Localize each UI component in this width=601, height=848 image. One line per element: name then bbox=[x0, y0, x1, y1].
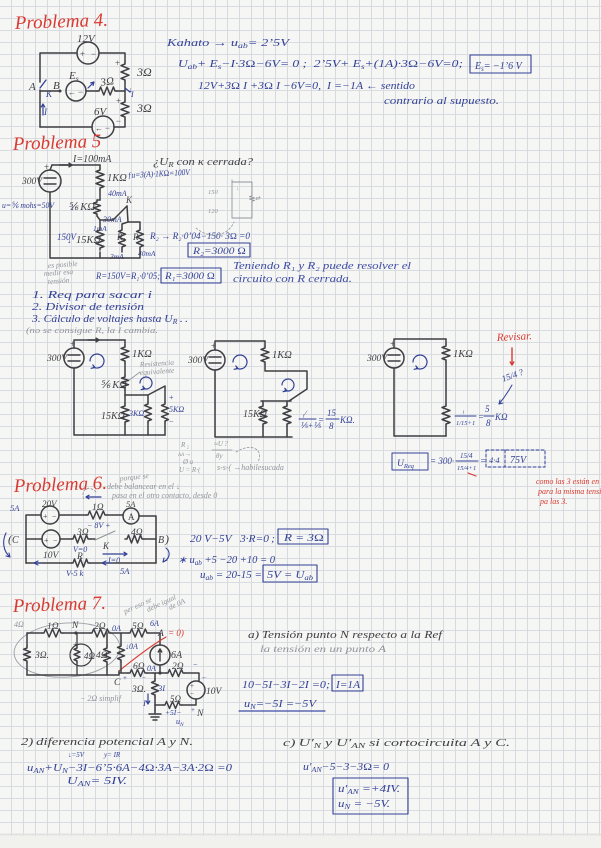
wire middle to right bbox=[117, 90, 125, 92]
wire left P5 bbox=[50, 165, 52, 170]
P6 blue arrow B bbox=[163, 548, 169, 562]
M2 bottom wire bbox=[215, 370, 292, 437]
M2 step wires bbox=[265, 364, 307, 401]
P7 node mid bbox=[158, 671, 161, 674]
M3 top wire bbox=[394, 339, 446, 348]
P7 resistor 3ohm left bbox=[24, 646, 31, 663]
M3 bottom wire bbox=[394, 368, 446, 436]
P6 blue I=0 arrow bbox=[103, 552, 127, 556]
M2 top wire bbox=[215, 341, 265, 350]
P6 blue bottom arrows bbox=[34, 561, 42, 565]
resistor R1 3ohm right top bbox=[121, 62, 129, 82]
M2 loop arrow 2 bbox=[282, 379, 294, 391]
red arrow down bbox=[510, 348, 514, 365]
wire top left P4 bbox=[40, 53, 77, 82]
wire bottom P4 bbox=[40, 126, 92, 128]
paper bottom strip bbox=[0, 836, 601, 848]
M1 resistor mid parallel bbox=[145, 402, 152, 423]
M2 resistor 1K bbox=[261, 346, 269, 364]
wire right bottom bbox=[114, 119, 125, 127]
paper noise bbox=[0, 0, 1, 1]
M1 node split bbox=[125, 386, 165, 402]
P6 switch K pencil bbox=[90, 538, 95, 540]
P7 underline bbox=[239, 710, 325, 712]
switch K blue bbox=[40, 80, 46, 88]
P6 top wire bbox=[26, 515, 41, 563]
bottom wire P5 bbox=[100, 249, 140, 258]
P6 source 10V bbox=[42, 530, 60, 548]
resistor R2 P5 bbox=[137, 228, 144, 249]
P7 resistor next bbox=[118, 644, 125, 662]
M1 resistor 1K bbox=[121, 345, 129, 363]
P7 current source 6A bbox=[150, 645, 170, 665]
P7 top wire left bbox=[27, 632, 42, 634]
current I arrow left bbox=[41, 104, 45, 115]
red tick below bbox=[468, 473, 476, 476]
wire node to parallel bbox=[99, 220, 101, 228]
P6 wire mid bbox=[60, 538, 71, 540]
M3 right wire bbox=[445, 362, 447, 404]
M2 resistor right bbox=[283, 404, 291, 426]
P7 left vertical bbox=[26, 633, 28, 675]
M2 loop arrow bbox=[233, 355, 247, 369]
voltage source V2 6V bbox=[92, 116, 114, 138]
resistor 1K P5 bbox=[96, 168, 104, 190]
M1 loop arrow bbox=[90, 354, 104, 368]
switch K P5 bbox=[113, 206, 127, 220]
P7 source 10V bbox=[187, 681, 205, 699]
wire right middle bbox=[124, 82, 126, 100]
M1 bottom wire bbox=[74, 368, 165, 435]
pencil ellipse bbox=[12, 619, 122, 680]
P7 ground bbox=[149, 710, 161, 720]
P7 blue I arrow bbox=[146, 694, 150, 704]
M1 loop arrow 2 bbox=[140, 377, 152, 389]
P7 resistor 4ohm mid bbox=[104, 646, 111, 664]
P6 right wire bbox=[139, 516, 156, 563]
P7 red line and =0 bbox=[119, 637, 166, 671]
wire left lower P4 bbox=[39, 90, 41, 127]
resistor R1 P5 bbox=[119, 228, 126, 249]
M3 resistor 1K bbox=[442, 344, 450, 362]
P6 bottom wire bbox=[26, 562, 71, 564]
wire top right P4 bbox=[99, 53, 125, 62]
voltage source Es bbox=[66, 81, 86, 101]
blue arrow xi bbox=[88, 82, 94, 88]
P7 bottom-left wire bbox=[27, 671, 119, 675]
top wire with arrow P5 bbox=[52, 164, 100, 166]
M3 loop arrow bbox=[413, 355, 427, 369]
P6 blue arrow top bbox=[86, 495, 101, 499]
wire Es to resistor bbox=[86, 90, 97, 92]
voltage source V1 12V bbox=[77, 42, 99, 64]
M3 resistor eq bbox=[442, 404, 450, 426]
wire A to B bbox=[40, 90, 60, 92]
M1 top wire bbox=[74, 340, 125, 348]
M2 parallel bar bbox=[261, 400, 291, 402]
P6 blue arrow C bbox=[4, 533, 10, 557]
current arrow I blue right bbox=[125, 88, 130, 92]
P6 middle wire bbox=[26, 538, 42, 540]
M1 resistor right parallel bbox=[162, 402, 169, 423]
wire below 1K bbox=[99, 190, 101, 200]
pencil mini sketch bbox=[232, 180, 252, 218]
P7 right wire down bbox=[185, 673, 199, 681]
